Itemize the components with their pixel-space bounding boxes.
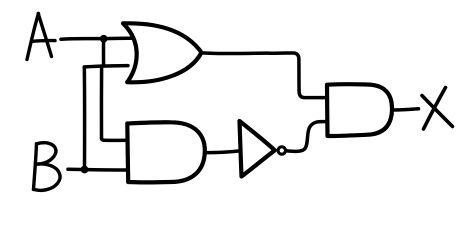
- wire A branch jog to AND1 top input: [102, 138, 128, 140]
- wire A branch lower vertical: [100, 69, 104, 139]
- node junction dot on B wire: [81, 166, 89, 174]
- inverter U3 triangle: [240, 121, 275, 177]
- AND gate U4 output stage: [327, 84, 392, 136]
- inverter U3 bubble: [278, 147, 285, 154]
- wire OR output to AND2 upper input: [201, 53, 327, 98]
- wire AND1 output to NOT input: [205, 151, 239, 153]
- wire B input: [68, 168, 127, 172]
- wire NOT output s-curve to AND2 lower input: [286, 122, 327, 152]
- input label A: [27, 14, 55, 60]
- input label B: [34, 143, 61, 191]
- output label X: [422, 88, 453, 130]
- wire B branch vertical: [83, 67, 87, 169]
- node junction dot on A wire: [100, 35, 108, 43]
- OR gate U1: [123, 23, 202, 82]
- AND gate U2: [127, 122, 205, 182]
- wire A input: [61, 38, 131, 39]
- wire B branch horizontal to OR lower input: [84, 66, 128, 67]
- wire A branch upper vertical: [102, 40, 106, 66]
- wire AND2 output: [392, 109, 419, 110]
